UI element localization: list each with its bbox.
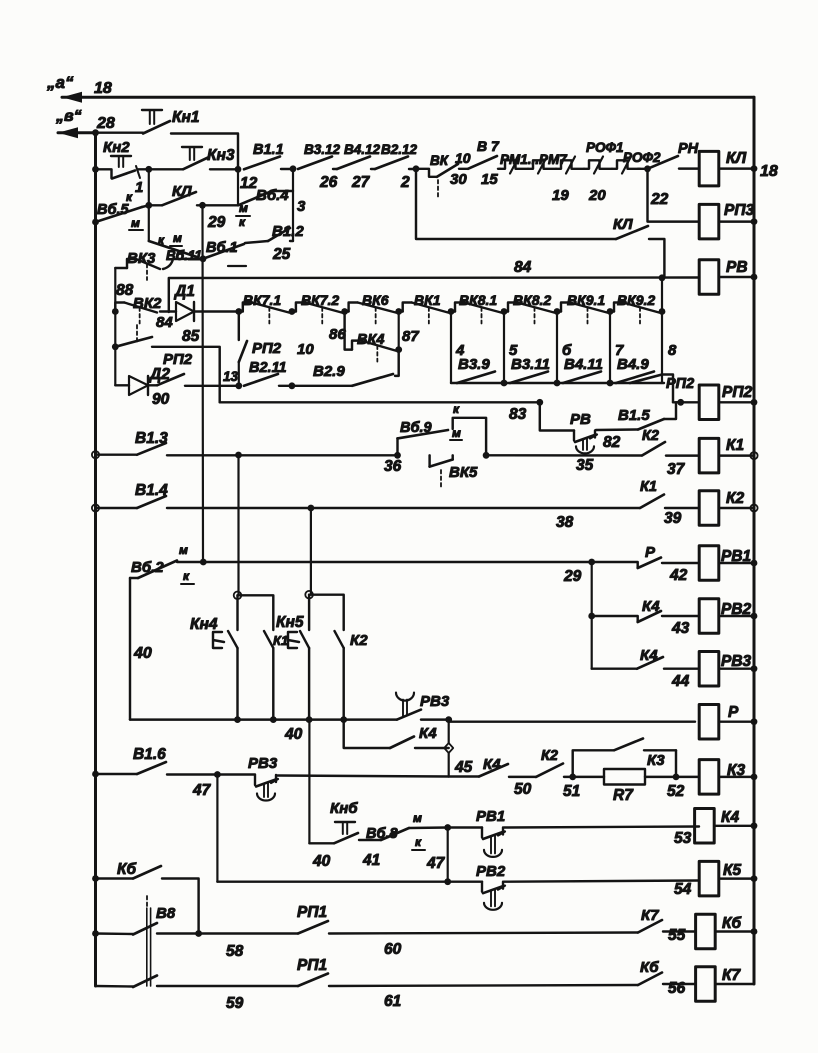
wire Д1 to ВК row [194, 310, 239, 312]
contact К6 (to К7) [638, 973, 662, 986]
contact РН [648, 156, 679, 169]
bus: sub-rail 88 [114, 268, 116, 385]
node junction К3/rail [751, 774, 758, 781]
svg-text:м: м [131, 216, 140, 230]
svg-text:ВК6: ВК6 [362, 292, 389, 308]
contact Вб.4 (м/к) [237, 169, 239, 205]
node junction Вб.2/col [200, 559, 207, 566]
node junction bus Кн5 [306, 716, 313, 723]
wire 8 [661, 312, 663, 384]
wire 83 [220, 401, 540, 403]
contact ВК6 [349, 303, 358, 312]
contact РВ2 (time opening) [481, 882, 483, 892]
svg-text:59: 59 [226, 995, 244, 1012]
svg-text:13: 13 [223, 369, 239, 384]
contact РВ3 (time closing) [397, 710, 421, 720]
svg-text:РП2: РП2 [252, 340, 282, 357]
svg-text:40: 40 [284, 726, 303, 743]
wire 40 bus [130, 718, 397, 720]
svg-text:52: 52 [667, 783, 685, 800]
node junction К6/rail [751, 928, 758, 935]
svg-text:б: б [562, 342, 572, 359]
node: arrow b [58, 127, 78, 138]
svg-text:Д1: Д1 [173, 283, 195, 300]
pushbutton Кн2 (NC) [96, 169, 112, 178]
node junction В2.11/В2.9 [289, 382, 296, 389]
node junction ВК row [607, 308, 614, 315]
contact К7 (to К6) [638, 920, 662, 933]
svg-text:82: 82 [603, 434, 621, 451]
svg-text:К2: К2 [726, 490, 745, 507]
svg-text:РП1: РП1 [297, 957, 327, 974]
svg-text:РВ: РВ [570, 411, 591, 428]
contact ВК7.1 [243, 303, 252, 312]
node 47 junction [444, 824, 451, 831]
node 29 junction [199, 202, 206, 209]
node 29 junction [588, 559, 595, 566]
wire Вб.2 row to 29 [203, 561, 591, 563]
svg-text:К4: К4 [642, 598, 660, 615]
svg-text:К2: К2 [350, 632, 368, 649]
node junction РВ2 branch [588, 613, 595, 620]
svg-text:41: 41 [362, 852, 380, 869]
svg-text:К2: К2 [642, 428, 659, 444]
node junction 13/В2.11 [235, 382, 242, 389]
svg-text:19: 19 [552, 187, 569, 204]
svg-text:83: 83 [509, 406, 527, 423]
pushbutton Кн1 [96, 131, 144, 133]
svg-text:1: 1 [135, 179, 143, 196]
wire К1 row [486, 454, 642, 457]
contact ВК (wire 30) [416, 169, 437, 177]
svg-text:53: 53 [674, 830, 692, 847]
contact РП1 (58/60) [298, 921, 328, 934]
node junction 45 top [445, 716, 452, 723]
svg-text:м: м [173, 231, 182, 245]
node junction sub-rail/РП2 [112, 343, 119, 350]
relay coil РВ1 [699, 546, 719, 581]
pushbutton Кн4 [236, 595, 238, 630]
contact Вб.8 (м/К) [359, 839, 381, 841]
node junction ВК row [501, 308, 508, 315]
switch В8 (upper) [96, 932, 134, 935]
bus: right supply rail [753, 97, 756, 984]
node junction РП3/rail [751, 218, 758, 225]
node: arrow a [62, 92, 82, 103]
node junction 45 diamond [444, 743, 453, 753]
svg-text:В2.12: В2.12 [381, 142, 418, 157]
contact К2 (to К3) [509, 776, 536, 778]
svg-text:18: 18 [760, 163, 778, 180]
diode Д1 [160, 310, 176, 312]
svg-text:Кн1: Кн1 [172, 109, 200, 126]
contact КЛ (to РВ) [416, 169, 616, 239]
diode Д2 [115, 384, 129, 386]
contact В1.6 [96, 773, 138, 775]
svg-text:РОФ2: РОФ2 [623, 150, 661, 165]
node junction left rail row 169 [92, 166, 99, 173]
contact ВК7.2 [296, 303, 305, 312]
node Вб.11 junction [200, 255, 207, 262]
relay coil РП3 [699, 204, 719, 239]
svg-text:50: 50 [514, 781, 532, 798]
svg-text:ВК1: ВК1 [414, 292, 441, 308]
svg-text:м: м [413, 811, 422, 825]
svg-text:47: 47 [192, 782, 212, 799]
svg-text:26: 26 [319, 174, 338, 191]
svg-text:ВК9.2: ВК9.2 [617, 292, 655, 308]
wire 58 [157, 932, 199, 934]
node junction rail/В1.6 [92, 771, 99, 778]
svg-text:38: 38 [556, 514, 574, 531]
svg-text:Р: Р [645, 544, 656, 561]
relay coil К2 [699, 491, 719, 526]
svg-text:61: 61 [384, 993, 401, 1010]
svg-text:РВ3: РВ3 [248, 755, 278, 772]
contact after Д2 (wire 90) [148, 384, 157, 386]
svg-text:В3.12: В3.12 [304, 142, 341, 157]
svg-text:В8: В8 [156, 905, 176, 922]
svg-text:47: 47 [426, 855, 446, 872]
wire 22 [648, 169, 700, 222]
contact ВК5 [428, 455, 430, 466]
wire В3.9 bus [451, 382, 664, 384]
node junction Р/rail [751, 718, 758, 725]
svg-text:к: к [158, 233, 165, 247]
contact К4 (sub) [390, 737, 414, 749]
svg-text:В4.12: В4.12 [344, 142, 381, 157]
svg-text:84: 84 [156, 314, 173, 331]
node junction ВК row [395, 308, 402, 315]
node junction РП2 coil input [677, 399, 684, 406]
contact Р (to РВ1) [592, 562, 638, 568]
svg-text:10: 10 [297, 341, 314, 358]
svg-text:К1: К1 [726, 437, 744, 454]
switch В8 (lower) [96, 985, 134, 988]
contact К2 (to К1) [642, 442, 665, 456]
svg-text:ВК4: ВК4 [357, 332, 384, 348]
node 12 junction [235, 166, 242, 173]
svg-text:7: 7 [615, 342, 624, 359]
svg-text:30: 30 [450, 171, 467, 188]
svg-text:84: 84 [514, 259, 532, 276]
wire 29 vertical [591, 562, 593, 669]
wire К5 row [217, 880, 482, 882]
svg-text:ВК2: ВК2 [133, 295, 162, 312]
svg-text:ВК8.2: ВК8.2 [513, 292, 551, 308]
svg-text:м: м [452, 426, 461, 440]
relay coil РВ [699, 260, 719, 295]
node junction 47 col [214, 771, 221, 778]
svg-text:КЛ: КЛ [726, 150, 747, 167]
relay coil РВ3 [699, 651, 719, 686]
contact РВ (time, wire 82) [540, 402, 574, 430]
wire Кн5 col down [308, 720, 310, 844]
node junction К4/rail [751, 822, 758, 829]
contact РВ1 (time opening) [448, 826, 482, 828]
svg-text:РП2: РП2 [722, 384, 752, 401]
svg-text:15: 15 [481, 171, 498, 188]
svg-text:51: 51 [563, 783, 580, 800]
relay coil КЛ [699, 151, 719, 186]
svg-text:Кн5: Кн5 [276, 614, 304, 631]
svg-text:90: 90 [152, 391, 170, 408]
wire 47 vertical [216, 775, 218, 882]
node 51 junction [569, 774, 576, 781]
svg-text:К4: К4 [721, 809, 740, 826]
svg-text:В1.3: В1.3 [135, 430, 168, 447]
svg-text:к: к [126, 190, 133, 204]
relay coil К3 [699, 760, 719, 795]
svg-text:В2.9: В2.9 [313, 363, 345, 380]
svg-text:55: 55 [668, 927, 686, 944]
svg-text:К5: К5 [723, 862, 742, 879]
contact Вб.9 (К/м) [396, 438, 398, 455]
contact К3 (parallel R7) [573, 750, 614, 777]
svg-text:РМ1...РМ7: РМ1...РМ7 [500, 152, 568, 167]
relay coil РВ2 [699, 599, 719, 634]
svg-text:45: 45 [454, 759, 473, 776]
svg-text:РОФ1: РОФ1 [586, 140, 624, 155]
svg-text:ВК3: ВК3 [127, 250, 156, 267]
svg-text:ВК9.1: ВК9.1 [567, 292, 605, 308]
node junction РВ3/rail [751, 665, 758, 672]
svg-text:К1: К1 [273, 633, 288, 648]
wire 45 vertical [448, 720, 450, 743]
contact К4 (to РВ3) [592, 667, 637, 669]
svg-text:44: 44 [671, 673, 690, 690]
node junction В1.3/Кн4 col [235, 452, 242, 459]
svg-text:Кб: Кб [722, 915, 742, 932]
svg-text:РП1: РП1 [297, 904, 327, 921]
node junction rail/В8 top [92, 930, 99, 937]
node junction К5/rail [751, 875, 758, 882]
relay coil К1 [699, 438, 719, 473]
svg-text:Вб.1: Вб.1 [206, 240, 238, 256]
svg-text:к: к [239, 215, 246, 229]
node junction Кн2/КЛ column [145, 166, 152, 173]
svg-text:К1: К1 [640, 479, 657, 495]
node junction Кн2 col/КЛ row [148, 169, 150, 205]
svg-text:43: 43 [671, 620, 690, 637]
contact КБ [96, 877, 134, 879]
svg-text:Кн4: Кн4 [190, 616, 218, 633]
svg-text:РВ3: РВ3 [721, 653, 752, 670]
resistor R7 [573, 776, 604, 778]
svg-text:29: 29 [207, 214, 226, 231]
contact В4.12 [337, 157, 370, 170]
svg-text:Вб.2: Вб.2 [131, 559, 164, 576]
svg-text:В1.5: В1.5 [618, 407, 650, 424]
pushbutton Кн6 [309, 842, 334, 844]
svg-text:Кб: Кб [117, 861, 137, 878]
contact РП2 (vertical, wire 13) [238, 312, 240, 341]
contact В7 (wire 15) [459, 168, 468, 170]
svg-text:35: 35 [576, 457, 594, 474]
svg-text:87: 87 [402, 328, 419, 345]
svg-text:РВ1: РВ1 [476, 808, 505, 825]
svg-text:88: 88 [116, 282, 134, 299]
contact Вб.2 (м/К) [130, 577, 138, 579]
wire Р row [449, 720, 695, 722]
node junction ВК9.2/8 [659, 308, 666, 315]
svg-text:КЛ: КЛ [172, 183, 192, 200]
contact В2.12 [375, 157, 408, 170]
svg-text:36: 36 [384, 458, 402, 475]
svg-text:ВК5: ВК5 [449, 464, 478, 481]
node junction ВК row [289, 308, 296, 315]
node junction bus К2 [340, 716, 347, 723]
wire 40 left vertical [129, 578, 131, 720]
svg-text:8: 8 [668, 342, 677, 359]
pushbutton Кн5 [308, 595, 310, 630]
contact В2.11 [244, 374, 278, 386]
svg-text:КЛ: КЛ [613, 216, 633, 233]
contact Вб.11 (к/м) [148, 205, 150, 241]
svg-text:Кб: Кб [640, 959, 659, 976]
svg-text:29: 29 [563, 568, 582, 585]
node junction ВК row [554, 308, 561, 315]
bus: left supply rail [94, 133, 97, 986]
svg-text:Р: Р [728, 704, 739, 721]
svg-text:В 7: В 7 [477, 138, 500, 154]
svg-text:86: 86 [329, 326, 346, 343]
svg-text:ВК7.1: ВК7.1 [243, 292, 281, 308]
svg-text:Вб.8: Вб.8 [366, 826, 398, 842]
relay coil РП2 [699, 385, 719, 420]
wire ВК9.2 to 84 [661, 278, 663, 312]
svg-text:60: 60 [384, 941, 402, 958]
svg-text:к: к [183, 569, 190, 583]
svg-text:ВК: ВК [430, 153, 450, 168]
relay coil К7 [696, 967, 716, 1002]
wire Кн5 column [310, 508, 312, 595]
wire line b (28) feeder [58, 131, 96, 134]
contact КЛ (self-hold) [149, 204, 162, 206]
node junction rail/КБ [92, 875, 99, 882]
contact ВК4 [345, 312, 352, 350]
node junction ВК4/ВК1 col [395, 346, 402, 353]
wire 3 vertical [292, 169, 294, 241]
contact К1 (branch) [238, 595, 274, 630]
svg-text:РВ: РВ [726, 259, 748, 276]
node junction Кн4/К1 split [234, 592, 242, 600]
contact В1.2 [290, 240, 293, 242]
node junction В1.1/В3.12 [290, 165, 297, 172]
contact ВК9.2 [614, 303, 623, 312]
contact РП2 (selector) [115, 337, 152, 347]
relay coil Р [699, 704, 719, 739]
contact К4 (to К3) [479, 764, 508, 777]
contact РВ3 (time opening) [217, 773, 255, 775]
contact ВК8.2 [508, 303, 517, 312]
svg-text:18: 18 [94, 80, 112, 97]
node junction b/Kn1 [92, 129, 99, 136]
svg-text:к: к [453, 402, 460, 416]
svg-text:В2.11: В2.11 [249, 360, 287, 376]
svg-text:37: 37 [667, 461, 686, 478]
svg-text:Кн2: Кн2 [103, 139, 130, 156]
contact К4 (to РВ2) [592, 616, 638, 622]
wire line a (18) top feeder [62, 96, 754, 99]
svg-text:28: 28 [96, 115, 115, 132]
svg-text:В1.4: В1.4 [135, 482, 168, 499]
node junction rail/В1.4 [92, 504, 99, 511]
svg-text:42: 42 [669, 567, 688, 584]
svg-text:39: 39 [664, 510, 682, 527]
relay coil К4 [695, 809, 715, 844]
wire drop / contact &#1042;3.9 [450, 312, 452, 384]
svg-text:РВ2: РВ2 [476, 863, 506, 880]
svg-text:К7: К7 [722, 967, 742, 984]
wire 13 [185, 385, 236, 387]
node 2 junction [413, 165, 420, 172]
svg-text:„a“: „a“ [46, 73, 74, 92]
contact В1.3 [96, 453, 138, 455]
svg-text:К4: К4 [419, 725, 437, 742]
contact ВК3 [115, 267, 127, 269]
svg-text:РН: РН [678, 141, 699, 157]
node junction РП2/rail [751, 399, 758, 406]
node junction ВК row [341, 308, 348, 315]
svg-text:4: 4 [455, 342, 465, 359]
node junction К1/rail [750, 452, 757, 459]
node junction bus Кн4 [234, 716, 241, 723]
svg-text:25: 25 [272, 246, 291, 263]
svg-text:РП2: РП2 [666, 376, 694, 392]
contact В1.4 [96, 507, 138, 509]
svg-text:В1.1: В1.1 [253, 142, 284, 158]
node junction КЛ/rail [751, 165, 758, 172]
contact Вб.5 (К/м selector) [92, 219, 99, 226]
contact РП2 (to coil) [630, 375, 662, 384]
contact К1 (to К2) [640, 495, 664, 509]
node junction rail/В1.3 [92, 451, 99, 458]
node junction В1.4/Кн5 col [308, 505, 315, 512]
node junction 47/К5 row [444, 878, 451, 885]
wire Кн1 to node 12 [171, 134, 238, 170]
svg-text:В1.2: В1.2 [272, 223, 304, 240]
contact В1.1 [244, 157, 280, 170]
svg-text:58: 58 [226, 943, 244, 960]
wire К2 col to К4 row [344, 720, 390, 748]
wire 59 [157, 985, 298, 987]
wire Кн4 column [237, 455, 239, 595]
node 52 junction [673, 774, 680, 781]
wire drop / contact &#1042;4.11 [556, 312, 558, 384]
svg-text:К4: К4 [483, 756, 501, 773]
svg-text:Вб.5: Вб.5 [97, 202, 129, 218]
contact К2 (branch) [309, 595, 344, 630]
svg-text:20: 20 [588, 187, 606, 204]
contact Вб.1 [203, 244, 244, 259]
svg-text:„в“: „в“ [55, 108, 82, 125]
node junction РВ1/rail [751, 560, 758, 567]
wire КЛ to РВ coil [649, 239, 664, 277]
svg-text:40: 40 [133, 645, 152, 662]
svg-text:ВК7.2: ВК7.2 [301, 292, 339, 308]
svg-text:к: к [415, 835, 422, 849]
contacts РМ1...РМ7 [500, 160, 528, 169]
contact В2.9 [292, 385, 352, 387]
contact В3.12 [298, 157, 332, 170]
node 22 junction [638, 168, 648, 170]
relay coil К6 [696, 914, 716, 949]
svg-text:РП3: РП3 [724, 202, 754, 219]
switch В8 linkage [146, 908, 148, 986]
svg-text:Вб.9: Вб.9 [400, 420, 432, 436]
svg-text:м: м [179, 543, 188, 557]
